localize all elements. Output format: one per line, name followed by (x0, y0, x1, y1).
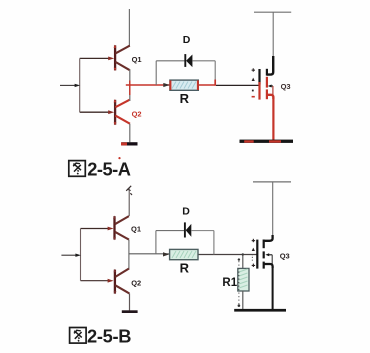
wire top supply rail (B) (253, 181, 291, 183)
wire R1 top lead (B) (242, 255, 244, 269)
wire Q3-A source down to bottom rail (272, 97, 274, 141)
ground bar under Q2 (B) (122, 310, 138, 313)
wire R1 bottom lead (B) (242, 291, 244, 310)
transistor Q2 (A) (114, 99, 130, 125)
junction dot at R1 top (242, 253, 244, 255)
svg-text:2-5-A: 2-5-A (87, 158, 131, 179)
red speck above A (118, 157, 120, 159)
diode D (B) (185, 222, 191, 237)
wire main gate wire red (A), resistor to loop right corner (198, 84, 216, 86)
caption 图 glyph (A) (69, 161, 86, 177)
wire base lead of Q1-A with arrowhead (80, 57, 115, 61)
tick marks left of gate (A) (252, 68, 255, 97)
svg-text:R: R (180, 91, 190, 106)
wire diode anode-side top wire (A) (156, 60, 184, 62)
svg-text:Q1: Q1 (132, 55, 142, 64)
wire Q3-A drain feed (272, 12, 274, 57)
resistor R (A) (163, 80, 199, 90)
wire main gate wire (B), resistor to gate (198, 254, 257, 256)
bottom rail (A) (240, 140, 294, 143)
wire diode loop left vertical (A) (155, 61, 157, 85)
wire Q2-B collector down to ground (129, 294, 131, 311)
wire base lead of Q1-B with arrowhead (81, 227, 114, 231)
svg-text:D: D (182, 206, 190, 218)
source bend (267, 95, 274, 99)
transistor Q2 (B) (114, 268, 130, 294)
wire input lead with arrowhead (B) (61, 254, 81, 257)
wire Q1-A collector vertical to supply (128, 9, 130, 47)
wire Q3-B source down to bottom rail (272, 266, 274, 309)
wire input box left vertical (B) (80, 229, 82, 281)
diode D (A) (185, 54, 192, 67)
transistor Q1 (B) (113, 216, 129, 241)
source bend (264, 264, 273, 268)
channel segments (266, 69, 268, 76)
tick marks left of gate (B) (252, 239, 255, 267)
svg-text:2-5-B: 2-5-B (87, 326, 131, 347)
wire Q1-B collector vertical (128, 189, 130, 217)
resistor R1 (B) (238, 268, 249, 291)
wire diode loop right vertical (B) (213, 231, 215, 255)
wire diode anode-side top wire (B) (156, 230, 184, 232)
svg-text:D: D (183, 34, 191, 46)
wire diode right top wire (B) (191, 230, 214, 232)
ground bar under Q2 (A) (121, 142, 138, 145)
channel segments (263, 240, 265, 249)
svg-text:Q1: Q1 (131, 224, 141, 233)
wire diode right top wire (A) (192, 60, 215, 62)
svg-text:R1: R1 (222, 277, 237, 289)
wire Q3-B drain feed (272, 182, 274, 236)
drain thick lead and bend (267, 56, 273, 75)
transistor Q1 (A) (114, 45, 130, 71)
caption 图 glyph (B) (70, 328, 87, 344)
bottom rail (B) (234, 309, 286, 312)
wire diode loop right vertical (A) (214, 61, 216, 85)
wire base lead of Q2-A with arrowhead (80, 110, 115, 114)
body arrow (270, 85, 273, 87)
wire top supply rail (A) (254, 11, 291, 13)
wire Q2-A collector down to ground (129, 124, 131, 143)
MOSFET Q3 (A) (260, 56, 274, 100)
wire main gate wire (B), node to resistor (129, 253, 170, 255)
gate bar (256, 240, 258, 269)
wire diode loop left vertical (B) (155, 231, 157, 254)
supply squiggle at top of Q1-B collector (126, 186, 132, 195)
svg-text:Q3: Q3 (280, 251, 290, 260)
wire input box left vertical (A) (79, 58, 81, 112)
resistor R (B) (163, 249, 198, 259)
MOSFET Q3 (B) (257, 235, 272, 269)
wire node vertical between Q1/Q2 emitters (A) (129, 69, 131, 101)
gate bar (258, 69, 260, 85)
wire base lead of Q2-B with arrowhead (81, 279, 114, 283)
wire input lead with arrowhead (A) (60, 84, 80, 87)
svg-text:Q3: Q3 (281, 82, 291, 91)
svg-text:Q2: Q2 (131, 279, 141, 288)
drain thick lead and bend (264, 235, 273, 241)
svg-text:R: R (180, 261, 190, 276)
svg-text:Q2: Q2 (132, 109, 142, 118)
dotted annotation line beside R1 (238, 258, 241, 307)
body arrow (267, 254, 272, 256)
wire main gate wire black (A), to MOSFET gate (216, 84, 259, 86)
wire main gate wire red (A), node to resistor (126, 84, 171, 86)
wire node vertical between Q1/Q2 (B) (128, 240, 130, 269)
